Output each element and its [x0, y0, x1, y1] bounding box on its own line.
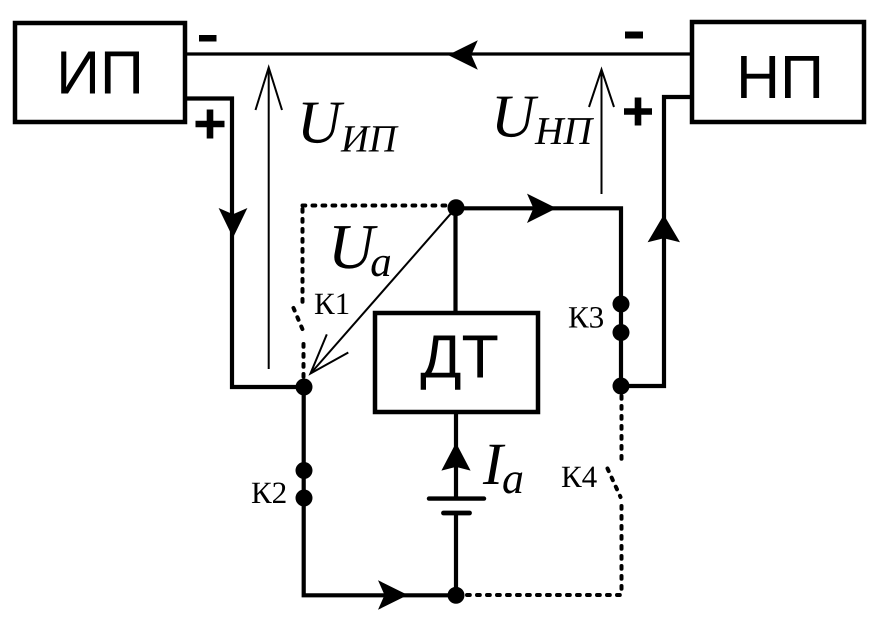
arrowhead right on node A wire [527, 194, 557, 223]
arrowhead up on НП plus lead [648, 215, 680, 243]
wire battery column upper to ДТ [454, 414, 458, 499]
battery short plate [444, 511, 470, 516]
contact K3 dot upper [613, 296, 630, 313]
node B junction dot [296, 379, 313, 396]
contact K3 dot lower [613, 324, 630, 341]
label ИП [61, 52, 139, 94]
label K3 [569, 307, 603, 328]
label U_a [334, 226, 390, 276]
label U_НП [497, 97, 594, 144]
box ИП [15, 23, 185, 122]
arrowhead left on minus bus [448, 40, 478, 69]
wire ДТ top to node A [453, 208, 457, 311]
label ДТ [421, 336, 498, 390]
wire node A to K3 branch [456, 208, 621, 386]
battery long plate [429, 496, 484, 500]
plus sign at ИП [196, 110, 225, 139]
wire ИП plus lead [187, 99, 304, 388]
box ДТ [375, 313, 538, 412]
dotted wire K4 lower [620, 506, 624, 592]
label K4 [562, 467, 597, 487]
label U_ИП [303, 103, 399, 152]
label НП [741, 56, 819, 98]
switch K4 blade [608, 469, 621, 498]
dotted wire K1 lower [302, 344, 306, 380]
wire battery column lower [454, 513, 458, 595]
dotted wire K1 upper [301, 209, 305, 303]
contact K2 dot lower [296, 490, 313, 507]
plus sign at НП [624, 98, 652, 126]
contact K2 dot upper [296, 462, 313, 479]
arrowhead up (Ia) [441, 443, 470, 471]
dotted wire top (node A to K1 corner) [303, 204, 451, 208]
node C junction dot [613, 378, 630, 395]
wire K3 node to НП plus lead [621, 97, 690, 386]
wire minus bus (ИП to НП top wire) [187, 52, 690, 55]
wire left lower branch (K2) [304, 387, 456, 595]
box НП [692, 22, 864, 122]
node A junction dot [448, 199, 465, 216]
dotted wire K4 upper [620, 396, 624, 462]
arrowhead down on left branch [219, 208, 248, 238]
arrow U_a [311, 208, 457, 374]
label K1 [315, 294, 348, 315]
arrowhead right on bottom wire [378, 580, 408, 610]
arrow U_НП [589, 70, 614, 195]
node D junction dot [448, 587, 465, 604]
dotted wire bottom (node D to K4) [467, 593, 621, 597]
arrow U_ИП [256, 68, 283, 370]
switch K1 blade [294, 308, 305, 334]
minus sign at НП [625, 32, 643, 39]
minus sign at ИП [199, 35, 217, 42]
label I_a [483, 445, 523, 494]
label K2 [252, 483, 286, 504]
